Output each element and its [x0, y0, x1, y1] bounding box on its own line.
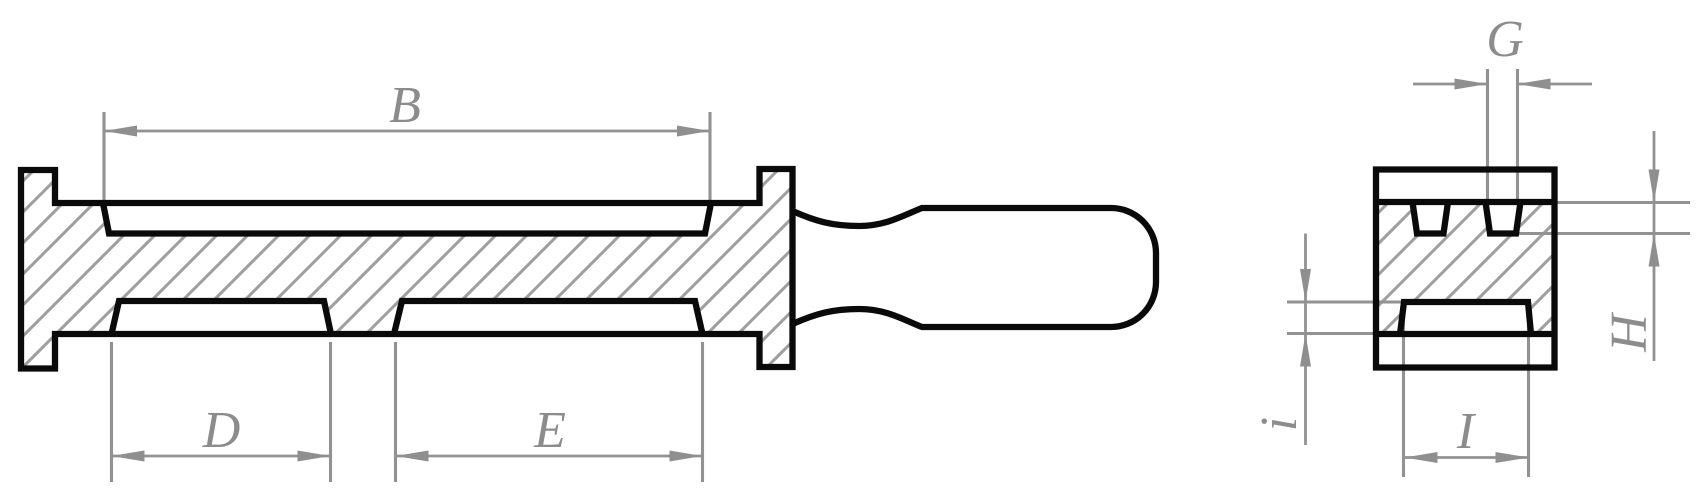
file body outline with tang flange (left) and ferrule flange (right) — [21, 169, 793, 369]
svg-text:i: i — [1251, 417, 1308, 431]
svg-text:E: E — [533, 402, 566, 459]
end view top surface line — [1376, 199, 1555, 205]
dimension i (pad height, end view) — [1287, 234, 1404, 446]
dimension B (top groove width) — [104, 112, 710, 200]
svg-text:I: I — [1456, 403, 1477, 460]
bottom pad 1 (left) — [112, 301, 332, 334]
bottom pad 2 (right) — [394, 301, 703, 334]
dimension H (notch depth, end view) — [1518, 131, 1690, 361]
top groove profile — [103, 203, 711, 234]
end view notch 1 — [1413, 202, 1449, 234]
end view bottom surface line — [1376, 331, 1555, 337]
dimension I (pad width, end view) — [1404, 303, 1529, 477]
section hatch: end view (block minus notches and pad) — [1376, 202, 1555, 334]
svg-text:B: B — [389, 77, 421, 134]
handle — [793, 208, 1157, 327]
end view block — [1376, 170, 1555, 368]
end view notch 2 — [1486, 202, 1521, 234]
svg-text:G: G — [1486, 11, 1524, 68]
end view bottom pad — [1400, 302, 1531, 334]
dimension D (left bottom pad width) — [112, 342, 331, 482]
dimension E (right bottom pad width) — [396, 342, 703, 482]
svg-text:H: H — [1601, 312, 1658, 353]
section hatch: main side view (flanges and body minus groove and pads) — [21, 169, 793, 369]
svg-text:D: D — [202, 402, 241, 459]
dimension G (notch width, end view) — [1413, 69, 1592, 200]
